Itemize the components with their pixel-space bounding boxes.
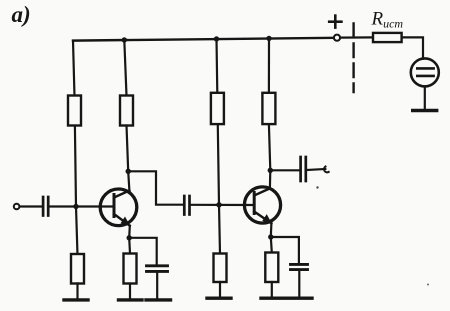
wire R3 to ground xyxy=(76,284,78,299)
resistor R3 xyxy=(71,254,84,284)
resistor R6 xyxy=(262,93,275,124)
wire R6 chain rail to collector2 xyxy=(268,38,270,92)
wire Q1 emitter chain xyxy=(128,226,131,254)
resistor R2 xyxy=(120,96,133,126)
wire input to C1 xyxy=(20,205,42,207)
capacitor C3 bypass xyxy=(147,266,168,272)
wire C5 to ground xyxy=(298,271,300,297)
wire emitter2 to bypass cap C5 xyxy=(271,237,299,263)
node collector1 junction xyxy=(126,169,131,174)
wire R2 chain rail to collector xyxy=(124,40,126,96)
wire source to ground xyxy=(424,86,426,109)
terminal output hook xyxy=(324,167,329,173)
ground stage2 divider xyxy=(207,297,231,300)
capacitor C4 output xyxy=(301,157,306,181)
speck mark xyxy=(316,186,318,188)
label plus xyxy=(329,16,341,28)
wire C3 to ground xyxy=(156,273,158,299)
source V dc xyxy=(411,58,439,86)
wire C4 to output terminal xyxy=(307,169,325,170)
wire R7 to ground xyxy=(219,282,221,297)
node rail junction R5 xyxy=(214,36,219,41)
terminal input xyxy=(14,204,20,210)
speck mark xyxy=(427,284,429,286)
node base1 junction xyxy=(73,204,78,209)
terminal supply xyxy=(334,35,340,41)
resistor R8 emitter xyxy=(265,253,278,283)
ground stage1 divider xyxy=(64,298,88,301)
resistor R7 xyxy=(214,254,227,283)
ground R8 xyxy=(261,297,286,300)
transistor Q1 xyxy=(100,189,137,226)
ground R4 xyxy=(119,298,143,301)
resistor Rist xyxy=(373,33,402,42)
node base2 junction xyxy=(216,202,221,207)
wire R8 to ground xyxy=(271,282,273,297)
node emitter1 junction xyxy=(127,235,132,240)
ground C5 xyxy=(289,297,313,300)
wire R6 to collector Q2 xyxy=(269,124,270,188)
wire collector2 to output cap xyxy=(270,169,299,171)
node emitter2 junction xyxy=(268,234,273,239)
ground source xyxy=(413,109,437,112)
node rail junction R2 xyxy=(122,37,127,42)
resistor R5 xyxy=(211,93,224,124)
boundary dashed line xyxy=(352,24,354,93)
node collector2 junction xyxy=(268,168,273,173)
wire Rist to source xyxy=(402,37,423,58)
wire top supply rail xyxy=(73,38,334,41)
ground C3 xyxy=(146,298,171,301)
resistor R1 xyxy=(68,96,81,126)
wire emitter1 to bypass cap C3 xyxy=(129,238,157,265)
wire stage2 divider chain xyxy=(217,39,221,254)
wire R2 to collector Q1 xyxy=(127,126,130,191)
resistor R4 emitter xyxy=(124,254,137,284)
wire C2 to base Q2 xyxy=(191,204,254,206)
wire terminal to Rsource xyxy=(340,36,373,38)
capacitor C1 xyxy=(43,197,48,216)
capacitor C2 coupling xyxy=(184,196,189,215)
wire C1 to base Q1 xyxy=(50,205,114,207)
transistor Q2 xyxy=(244,187,280,223)
wire R4 to ground xyxy=(129,284,131,299)
capacitor C5 bypass xyxy=(291,264,308,269)
wire Q2 emitter chain xyxy=(271,223,272,252)
wire collector1 to coupling cap xyxy=(128,171,183,204)
wire left divider chain xyxy=(73,41,78,255)
node rail junction R6 xyxy=(266,36,271,41)
svg-text:а): а) xyxy=(12,2,31,27)
